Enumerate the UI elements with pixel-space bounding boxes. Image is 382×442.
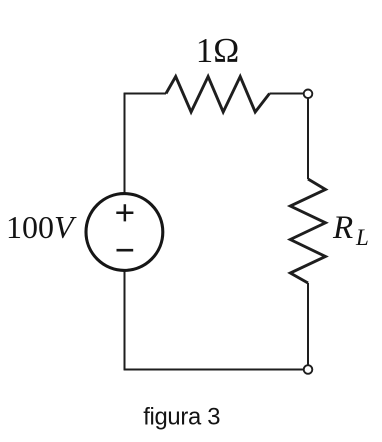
terminal node A (top-right open circle) bbox=[304, 90, 313, 99]
voltage source minus sign bbox=[117, 249, 134, 252]
voltage source V1 circle bbox=[86, 194, 163, 271]
svg-text:100V: 100V bbox=[6, 209, 77, 245]
svg-text:R: R bbox=[332, 210, 353, 246]
wire right lower (RL down to terminal B) bbox=[307, 283, 309, 365]
resistor R1 1Ω zigzag bbox=[166, 77, 270, 113]
resistor RL zigzag bbox=[290, 179, 325, 283]
wire bottom horizontal bbox=[124, 369, 304, 371]
svg-text:1Ω: 1Ω bbox=[196, 31, 240, 70]
wire top right (resistor to terminal A) bbox=[270, 93, 304, 95]
wire left upper (source top to top-left corner) bbox=[124, 93, 126, 195]
wire left lower (bottom corner up to source bottom) bbox=[124, 270, 126, 371]
svg-text:figura 3: figura 3 bbox=[143, 404, 220, 431]
svg-text:L: L bbox=[355, 225, 369, 250]
wire top horizontal (corner to resistor) bbox=[124, 93, 166, 95]
voltage source plus sign bbox=[116, 204, 133, 221]
wire right upper (terminal A down to RL) bbox=[307, 98, 309, 179]
terminal node B (bottom-right open circle) bbox=[304, 365, 313, 374]
